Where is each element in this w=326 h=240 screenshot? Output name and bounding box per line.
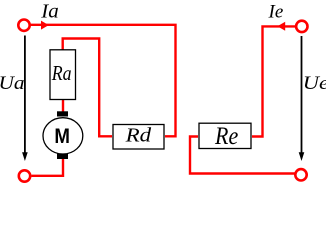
svg-text:Ue: Ue — [303, 72, 326, 93]
svg-text:Rd: Rd — [125, 124, 152, 147]
svg-text:Ia: Ia — [40, 1, 59, 22]
svg-text:Re: Re — [214, 123, 238, 151]
svg-text:M: M — [54, 125, 70, 148]
svg-text:Ra: Ra — [51, 63, 72, 86]
svg-text:Ie: Ie — [268, 2, 284, 23]
svg-text:Ua: Ua — [0, 73, 24, 94]
